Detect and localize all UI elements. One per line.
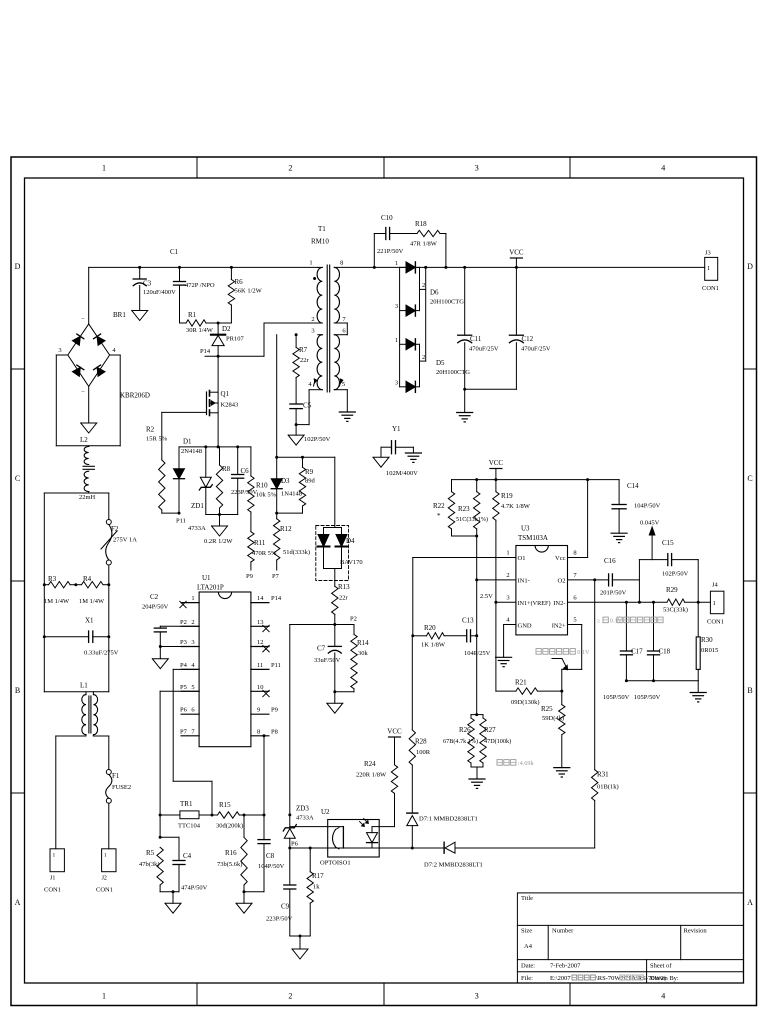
- svg-text:U3: U3: [521, 525, 530, 533]
- svg-text:Date:: Date:: [521, 963, 535, 970]
- svg-text:C5: C5: [303, 402, 312, 410]
- svg-text:C10: C10: [381, 214, 393, 222]
- svg-text:1: 1: [102, 164, 106, 173]
- svg-text:F1: F1: [112, 772, 120, 780]
- svg-text:P2: P2: [180, 619, 187, 626]
- svg-text:A4: A4: [524, 943, 533, 950]
- svg-text:Sheet of: Sheet of: [650, 963, 672, 970]
- svg-text:0R015: 0R015: [701, 647, 718, 654]
- svg-text:R9: R9: [305, 468, 314, 476]
- svg-text:3: 3: [475, 164, 479, 173]
- svg-text:FUSE2: FUSE2: [112, 784, 131, 791]
- svg-text:1K 1/8W: 1K 1/8W: [421, 642, 446, 649]
- svg-text:R18: R18: [415, 220, 427, 228]
- svg-text:R29: R29: [666, 586, 678, 594]
- svg-text:47R 1/8W: 47R 1/8W: [410, 241, 438, 248]
- svg-text:102P/50V: 102P/50V: [304, 436, 331, 443]
- svg-text:C: C: [747, 474, 752, 483]
- svg-text:R2: R2: [146, 426, 155, 434]
- svg-text:D1: D1: [183, 438, 192, 446]
- svg-text:102P/50V: 102P/50V: [662, 571, 689, 578]
- svg-text:CON1: CON1: [96, 887, 113, 894]
- svg-text:22r: 22r: [339, 595, 349, 602]
- svg-text:TSM103A: TSM103A: [518, 534, 548, 542]
- svg-text:8: 8: [257, 728, 260, 735]
- svg-text:204P/50V: 204P/50V: [142, 604, 169, 611]
- svg-text:F2: F2: [111, 525, 119, 533]
- svg-text:BR1: BR1: [113, 311, 126, 319]
- svg-text:≥: ≥: [597, 618, 601, 625]
- svg-text:D7:1 MMBD2838LT1: D7:1 MMBD2838LT1: [419, 816, 478, 823]
- svg-text:R6: R6: [235, 278, 244, 286]
- svg-text:BAV170: BAV170: [340, 559, 363, 566]
- svg-text:IN1-: IN1-: [518, 578, 530, 585]
- svg-text:59D(4k): 59D(4k): [542, 715, 564, 722]
- svg-text:A: A: [747, 898, 753, 907]
- svg-text:R30: R30: [701, 636, 713, 644]
- svg-text:IN2+: IN2+: [552, 623, 566, 630]
- svg-text:E:\2007: E:\2007: [550, 975, 571, 982]
- svg-text:2N4148: 2N4148: [181, 448, 202, 455]
- svg-text:R25: R25: [541, 705, 553, 713]
- svg-text:D4: D4: [346, 537, 355, 545]
- svg-text:4: 4: [661, 992, 665, 1001]
- svg-text:3: 3: [191, 639, 194, 646]
- svg-text:D3: D3: [281, 477, 290, 485]
- svg-text:C16: C16: [604, 557, 616, 565]
- svg-text:OPTOISO1: OPTOISO1: [320, 860, 351, 867]
- svg-text:67B(4.7k 1%): 67B(4.7k 1%): [443, 738, 478, 745]
- svg-text:89d: 89d: [305, 478, 316, 485]
- svg-text:3: 3: [395, 379, 398, 386]
- svg-text:VCC: VCC: [489, 459, 504, 467]
- svg-text:P2: P2: [350, 616, 357, 623]
- svg-text:104P/50V: 104P/50V: [258, 863, 285, 870]
- svg-text:P4: P4: [180, 662, 188, 669]
- svg-text:R3: R3: [48, 575, 57, 583]
- svg-text:10k 5%: 10k 5%: [256, 492, 277, 499]
- svg-text:223P/50V: 223P/50V: [231, 489, 258, 496]
- svg-text:L1: L1: [80, 682, 88, 690]
- svg-text:GND: GND: [518, 623, 532, 630]
- svg-text::4.69k: :4.69k: [518, 760, 535, 767]
- svg-text:R23: R23: [458, 505, 470, 513]
- svg-text:0.1V: 0.1V: [577, 649, 590, 656]
- svg-text:51d(333k): 51d(333k): [283, 549, 310, 556]
- svg-text:2: 2: [311, 316, 314, 323]
- svg-text:20H100CTG: 20H100CTG: [430, 299, 464, 306]
- svg-text:PR107: PR107: [226, 336, 244, 343]
- svg-text:13: 13: [257, 619, 264, 626]
- svg-text:223P/50V: 223P/50V: [266, 916, 293, 923]
- svg-text:P9: P9: [271, 707, 278, 714]
- svg-text:30k: 30k: [358, 650, 369, 657]
- svg-text:470uF/25V: 470uF/25V: [521, 346, 551, 353]
- svg-text:D2: D2: [222, 325, 231, 333]
- svg-text:104P/25V: 104P/25V: [464, 650, 491, 657]
- svg-text:0.045V: 0.045V: [640, 520, 660, 527]
- svg-text:RM10: RM10: [311, 238, 329, 246]
- svg-text:A: A: [15, 898, 21, 907]
- svg-text:30R 1/4W: 30R 1/4W: [186, 327, 214, 334]
- svg-text:470uF/25V: 470uF/25V: [469, 346, 499, 353]
- svg-text:R14: R14: [357, 639, 369, 647]
- svg-text:Number: Number: [552, 928, 574, 935]
- svg-text:J3: J3: [705, 250, 711, 257]
- svg-text:1: 1: [53, 853, 56, 859]
- svg-text:IN1+(VREF): IN1+(VREF): [518, 600, 551, 607]
- svg-text:P7: P7: [180, 728, 188, 735]
- svg-text:C: C: [15, 474, 20, 483]
- svg-text:100R: 100R: [416, 749, 431, 756]
- svg-text:47b(3k): 47b(3k): [139, 861, 160, 868]
- svg-text:D7:2 MMBD2838LT1: D7:2 MMBD2838LT1: [424, 862, 483, 869]
- svg-text:P5: P5: [180, 684, 187, 691]
- svg-text:105P/50V: 105P/50V: [603, 694, 630, 701]
- svg-text:2: 2: [288, 992, 292, 1001]
- svg-text:C13: C13: [462, 617, 474, 625]
- svg-text:09D(130k): 09D(130k): [511, 699, 540, 706]
- svg-text:Q1: Q1: [221, 390, 230, 398]
- svg-text:D: D: [747, 262, 753, 271]
- svg-text:T1: T1: [318, 225, 326, 233]
- svg-text:15R 5%: 15R 5%: [146, 436, 168, 443]
- svg-text:2: 2: [191, 619, 194, 626]
- svg-text:P7: P7: [272, 573, 280, 580]
- svg-text:2: 2: [288, 164, 292, 173]
- svg-text:R12: R12: [280, 525, 292, 533]
- svg-text:5: 5: [342, 381, 345, 388]
- svg-text:0.1V: 0.1V: [610, 618, 623, 625]
- svg-text:~: ~: [82, 316, 85, 322]
- svg-text:P3: P3: [180, 639, 187, 646]
- svg-text:VCC: VCC: [387, 728, 402, 736]
- svg-text:Vcc: Vcc: [555, 555, 566, 562]
- svg-text:ZD3: ZD3: [296, 805, 309, 813]
- svg-text:0.33uF/275V: 0.33uF/275V: [84, 650, 119, 657]
- svg-text:104P/50V: 104P/50V: [634, 503, 661, 510]
- svg-text:3: 3: [311, 328, 314, 335]
- svg-text:J4: J4: [712, 582, 719, 589]
- svg-text:C11: C11: [470, 335, 482, 343]
- svg-text:47D(100k): 47D(100k): [484, 738, 511, 745]
- svg-text:J2: J2: [102, 876, 107, 882]
- svg-text:O1: O1: [518, 555, 526, 562]
- svg-text:D5: D5: [436, 359, 445, 367]
- svg-text:4733A: 4733A: [296, 815, 314, 822]
- svg-text:B: B: [747, 686, 752, 695]
- svg-text:3: 3: [506, 594, 509, 601]
- svg-text:5: 5: [191, 684, 194, 691]
- svg-text:L2: L2: [80, 436, 88, 444]
- svg-text:53C(33k): 53C(33k): [663, 607, 688, 614]
- svg-text:R17: R17: [312, 872, 324, 880]
- svg-text:1: 1: [102, 992, 106, 1001]
- svg-text:R26: R26: [459, 726, 471, 734]
- svg-text:7-Feb-2007: 7-Feb-2007: [550, 963, 581, 970]
- svg-text:Drawn By:: Drawn By:: [650, 975, 679, 982]
- svg-text:R21: R21: [515, 679, 527, 687]
- svg-text:5: 5: [573, 617, 576, 624]
- svg-text:1: 1: [713, 600, 716, 607]
- svg-text:P6: P6: [291, 841, 299, 848]
- svg-text:12: 12: [257, 639, 264, 646]
- svg-text:R8: R8: [222, 465, 231, 473]
- svg-text:4: 4: [661, 164, 665, 173]
- svg-text:J1: J1: [50, 876, 55, 882]
- svg-text:C2: C2: [150, 593, 159, 601]
- svg-text:3: 3: [58, 347, 61, 354]
- svg-text:1: 1: [395, 260, 398, 267]
- svg-text:File:: File:: [521, 975, 533, 982]
- svg-text:C18: C18: [659, 648, 671, 656]
- svg-text:IN2-: IN2-: [553, 600, 565, 607]
- svg-text:C7: C7: [317, 645, 326, 653]
- svg-text:R13: R13: [338, 583, 350, 591]
- svg-text:P11: P11: [271, 662, 281, 669]
- svg-text:2: 2: [506, 572, 509, 579]
- svg-text:1: 1: [191, 595, 194, 602]
- svg-text:C9: C9: [281, 903, 290, 911]
- svg-text:TR1: TR1: [180, 800, 193, 808]
- svg-text:14: 14: [257, 595, 264, 602]
- svg-text:105P/50V: 105P/50V: [634, 694, 661, 701]
- svg-text:P11: P11: [176, 518, 186, 525]
- svg-text:2: 2: [422, 354, 425, 361]
- svg-text:P6: P6: [180, 707, 188, 714]
- svg-text:1: 1: [707, 265, 710, 272]
- svg-text:Y1: Y1: [392, 425, 401, 433]
- svg-text:30d(200k): 30d(200k): [216, 823, 243, 830]
- svg-text:C17: C17: [631, 648, 643, 656]
- svg-text:K2843: K2843: [221, 402, 239, 409]
- svg-text:CON1: CON1: [44, 887, 61, 894]
- svg-text:R15: R15: [219, 801, 231, 809]
- svg-text:TTC104: TTC104: [178, 823, 201, 830]
- svg-text:R19: R19: [501, 492, 513, 500]
- svg-text:P9: P9: [246, 573, 253, 580]
- svg-text:C14: C14: [627, 482, 639, 490]
- svg-text:102M/400V: 102M/400V: [386, 470, 418, 477]
- svg-text:X1: X1: [85, 617, 94, 625]
- svg-text:275V 1A: 275V 1A: [113, 537, 137, 544]
- svg-text:1: 1: [309, 260, 312, 267]
- svg-text:R16: R16: [225, 849, 237, 857]
- svg-text:C8: C8: [266, 852, 275, 860]
- svg-text:56K 1/2W: 56K 1/2W: [235, 288, 263, 295]
- svg-text:R5: R5: [146, 849, 155, 857]
- svg-text:220R 1/8W: 220R 1/8W: [356, 772, 387, 779]
- svg-text:VCC: VCC: [509, 249, 524, 257]
- svg-text:3: 3: [475, 992, 479, 1001]
- svg-text:Revision: Revision: [684, 928, 708, 935]
- svg-text:C6: C6: [241, 467, 250, 475]
- svg-text:C4: C4: [183, 852, 192, 860]
- svg-text:LTA201P: LTA201P: [197, 584, 224, 592]
- svg-text:ZD1: ZD1: [191, 502, 204, 510]
- svg-text:8: 8: [340, 260, 343, 267]
- svg-text:D: D: [15, 262, 21, 271]
- svg-text:R7: R7: [299, 346, 308, 354]
- svg-text:2.5V: 2.5V: [480, 593, 493, 600]
- svg-text:474P/50V: 474P/50V: [181, 885, 208, 892]
- svg-text:9: 9: [257, 707, 260, 714]
- svg-text:4733A: 4733A: [188, 525, 206, 532]
- svg-text:472P /NPO: 472P /NPO: [185, 282, 215, 289]
- svg-text:D6: D6: [430, 289, 439, 297]
- svg-text:R1: R1: [188, 311, 197, 319]
- svg-text:51C(33k1%): 51C(33k1%): [456, 516, 488, 523]
- svg-text:1: 1: [104, 853, 107, 859]
- svg-text:3: 3: [395, 303, 398, 310]
- svg-text:R10: R10: [256, 482, 268, 490]
- svg-text:4.7K 1/8W: 4.7K 1/8W: [501, 503, 531, 510]
- svg-text:11: 11: [257, 662, 263, 669]
- svg-text:1k: 1k: [313, 884, 320, 891]
- svg-text:R27: R27: [484, 726, 496, 734]
- svg-text:22mH: 22mH: [79, 494, 96, 501]
- svg-text:1M 1/4W: 1M 1/4W: [79, 598, 105, 605]
- svg-text:O2: O2: [558, 578, 566, 585]
- svg-text:B: B: [15, 686, 20, 695]
- svg-text:1N4148: 1N4148: [281, 491, 302, 498]
- svg-text:C12: C12: [522, 335, 534, 343]
- svg-text:*: *: [437, 512, 441, 520]
- svg-text:U2: U2: [321, 808, 330, 816]
- svg-text:22r: 22r: [300, 357, 310, 364]
- svg-text:1M 1/4W: 1M 1/4W: [44, 598, 70, 605]
- svg-text:1: 1: [395, 337, 398, 344]
- svg-text:R11: R11: [254, 539, 266, 547]
- svg-text:0.2R 1/2W: 0.2R 1/2W: [204, 538, 233, 545]
- svg-text:01B(1k): 01B(1k): [597, 784, 619, 791]
- svg-text:Size: Size: [521, 928, 532, 935]
- svg-text:Title: Title: [521, 895, 533, 902]
- svg-text:C1: C1: [170, 248, 179, 256]
- svg-text:R4: R4: [83, 575, 92, 583]
- svg-text:8: 8: [573, 550, 576, 557]
- svg-text:R28: R28: [415, 738, 427, 746]
- svg-text:CON1: CON1: [702, 285, 719, 292]
- svg-text:CON1: CON1: [707, 619, 724, 626]
- svg-text:2: 2: [422, 282, 425, 289]
- svg-text:10: 10: [257, 684, 264, 691]
- svg-text:U1: U1: [202, 574, 211, 582]
- svg-text:R24: R24: [364, 760, 376, 768]
- svg-text:73b(5.6k): 73b(5.6k): [217, 861, 242, 868]
- svg-text:KBR206D: KBR206D: [120, 392, 150, 400]
- svg-text:R31: R31: [597, 771, 609, 779]
- svg-text:120uF/400V: 120uF/400V: [143, 289, 176, 296]
- svg-text:R22: R22: [433, 502, 445, 510]
- svg-text:P14: P14: [271, 595, 282, 602]
- svg-text:C3: C3: [143, 280, 152, 288]
- svg-text:201P/50V: 201P/50V: [600, 590, 627, 597]
- svg-text:P8: P8: [271, 728, 278, 735]
- svg-text:221P/50V: 221P/50V: [377, 248, 404, 255]
- svg-text:33uF/50V: 33uF/50V: [314, 657, 341, 664]
- svg-text:R20: R20: [424, 624, 436, 632]
- svg-text:~: ~: [82, 389, 85, 395]
- svg-text:1: 1: [506, 550, 509, 557]
- svg-text:C15: C15: [662, 539, 674, 547]
- svg-text:P14: P14: [200, 348, 211, 355]
